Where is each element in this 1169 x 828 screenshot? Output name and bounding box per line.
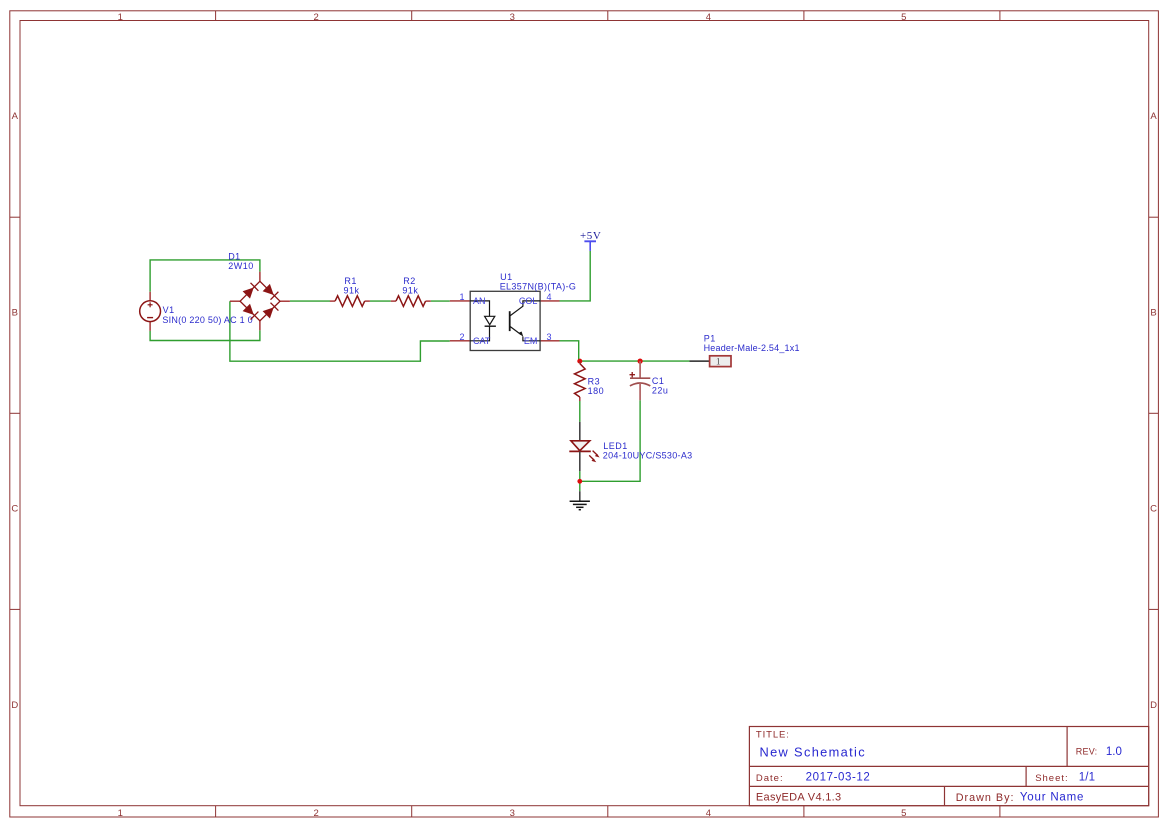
svg-text:D: D (1150, 700, 1157, 711)
resistor R2 (391, 296, 431, 307)
svg-text:1/1: 1/1 (1079, 772, 1096, 784)
svg-text:Your Name: Your Name (1020, 792, 1084, 804)
svg-text:LED1: LED1 (603, 441, 628, 451)
frame column numbers bottom (118, 808, 907, 819)
frame row letters right (1150, 111, 1157, 711)
svg-text:3: 3 (510, 808, 515, 819)
svg-text:EL357N(B)(TA)-G: EL357N(B)(TA)-G (500, 282, 577, 292)
svg-text:Date:: Date: (756, 773, 784, 784)
svg-text:2017-03-12: 2017-03-12 (806, 772, 871, 784)
power flag +5V (580, 230, 601, 251)
wire U1 pin4 to +5V (560, 251, 591, 301)
svg-text:COL: COL (519, 296, 538, 306)
junction dot node EM/R3 (577, 359, 582, 364)
svg-text:CAT: CAT (473, 336, 491, 346)
svg-text:Sheet:: Sheet: (1035, 773, 1068, 784)
svg-text:SIN(0 220 50) AC 1 0: SIN(0 220 50) AC 1 0 (162, 315, 253, 325)
wire R2 to U1 pin1 (431, 300, 450, 302)
svg-text:D: D (11, 700, 18, 711)
svg-text:2: 2 (459, 332, 464, 342)
wire LED1 to ground node (579, 471, 581, 491)
svg-text:C1: C1 (652, 376, 665, 386)
svg-text:2W10: 2W10 (228, 261, 254, 271)
diode on top-right edge (263, 284, 274, 295)
diode on top-left edge (243, 288, 254, 299)
svg-text:R3: R3 (588, 377, 601, 387)
wire C1 bottom to ground node (580, 400, 640, 481)
wire net V1- to bridge bottom (150, 330, 260, 340)
svg-text:New Schematic: New Schematic (760, 744, 866, 759)
frame row letters left (11, 111, 18, 711)
frame column numbers top (118, 12, 907, 23)
svg-text:91k: 91k (344, 285, 360, 295)
svg-text:1.0: 1.0 (1106, 746, 1122, 758)
svg-text:V1: V1 (163, 305, 175, 315)
svg-text:A: A (1150, 111, 1157, 122)
title block texts (756, 729, 1122, 804)
voltage source V1 (140, 292, 161, 331)
LED LED1 (569, 422, 599, 471)
svg-text:22u: 22u (652, 385, 669, 395)
svg-text:P1: P1 (704, 333, 716, 343)
svg-text:AN: AN (473, 296, 486, 306)
junction dot node LED1/GND (577, 479, 582, 484)
wire U1 pin3 to output node (560, 341, 690, 361)
optocoupler U1 (450, 291, 560, 350)
svg-text:EasyEDA V4.1.3: EasyEDA V4.1.3 (756, 792, 842, 804)
U1 internal LED (470, 301, 496, 341)
svg-text:U1: U1 (500, 272, 513, 282)
svg-text:3: 3 (510, 12, 515, 23)
diode on bottom-left edge (243, 304, 254, 315)
svg-text:Drawn By:: Drawn By: (956, 792, 1015, 804)
svg-text:4: 4 (547, 292, 552, 302)
svg-text:EM: EM (524, 336, 538, 346)
svg-text:REV:: REV: (1076, 747, 1097, 757)
resistor R3 (575, 361, 586, 401)
svg-text:D1: D1 (228, 252, 241, 262)
diode on bottom-right edge (263, 307, 274, 318)
svg-text:A: A (12, 111, 19, 122)
wire net V1+ to bridge top (150, 260, 260, 292)
title block (749, 727, 1148, 806)
svg-text:1: 1 (459, 292, 464, 302)
wire R1 to R2 (370, 300, 391, 302)
svg-text:204-10UYC/S530-A3: 204-10UYC/S530-A3 (603, 451, 693, 461)
wire bridge right to R1 (290, 300, 330, 302)
LED emission arrows (589, 451, 598, 461)
wire net bridge left to U1 pin2 (230, 301, 450, 361)
ground (570, 491, 590, 510)
svg-text:2: 2 (314, 808, 319, 819)
svg-text:1: 1 (716, 358, 721, 368)
svg-text:B: B (1150, 308, 1156, 319)
svg-text:4: 4 (706, 808, 711, 819)
svg-text:5: 5 (901, 12, 906, 23)
svg-text:2: 2 (314, 12, 319, 23)
wire R3 to LED1 (579, 401, 581, 422)
svg-text:180: 180 (588, 386, 605, 396)
capacitor C1 (630, 361, 651, 400)
svg-text:R1: R1 (344, 276, 357, 286)
svg-text:B: B (12, 308, 18, 319)
svg-text:+5V: +5V (580, 230, 601, 242)
svg-text:3: 3 (547, 332, 552, 342)
svg-text:Header-Male-2.54_1x1: Header-Male-2.54_1x1 (704, 343, 800, 353)
U1 internal phototransistor (510, 301, 540, 341)
svg-text:4: 4 (706, 12, 711, 23)
bridge rectifier D1 (230, 272, 290, 331)
svg-text:91k: 91k (402, 285, 418, 295)
svg-text:C: C (1150, 504, 1157, 515)
svg-text:C: C (11, 504, 18, 515)
svg-text:R2: R2 (403, 276, 416, 286)
header P1 (690, 356, 732, 368)
resistor R1 (330, 296, 370, 307)
svg-text:1: 1 (118, 808, 123, 819)
svg-text:1: 1 (118, 12, 123, 23)
svg-text:TITLE:: TITLE: (756, 729, 790, 740)
svg-text:5: 5 (901, 808, 906, 819)
junction dot node C1 top (638, 359, 643, 364)
